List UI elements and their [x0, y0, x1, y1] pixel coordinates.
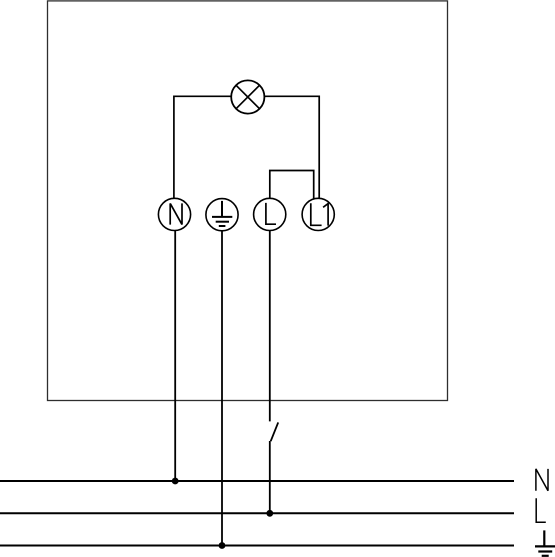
- N bus wire: [0, 480, 514, 482]
- label L: [536, 498, 546, 522]
- terminal L1: [302, 198, 334, 230]
- junction dot N: [172, 478, 179, 485]
- wire right vertical to L1: [318, 96, 320, 200]
- wire bridge L to L1: [270, 171, 314, 200]
- wire lamp left horizontal: [174, 95, 231, 97]
- junction dot PE: [219, 542, 226, 549]
- L bus wire: [0, 512, 514, 514]
- lamp E1: [231, 80, 264, 113]
- wire N terminal down to N bus: [174, 231, 176, 482]
- device enclosure outline: [48, 1, 448, 401]
- PE bus wire: [0, 545, 514, 547]
- label N: [536, 469, 548, 491]
- wire PE terminal down to PE bus: [221, 231, 223, 546]
- junction dot L: [266, 510, 273, 517]
- wire L terminal down to switch: [269, 231, 271, 422]
- switch S1 blade: [271, 422, 279, 441]
- wire lamp right horizontal: [264, 95, 319, 97]
- wire switch down to L bus: [269, 441, 271, 513]
- terminal N: [158, 198, 190, 230]
- terminal L: [254, 198, 286, 230]
- ground symbol: [535, 530, 555, 555]
- wire left vertical to N: [173, 96, 175, 199]
- terminal PE (earth): [206, 199, 238, 231]
